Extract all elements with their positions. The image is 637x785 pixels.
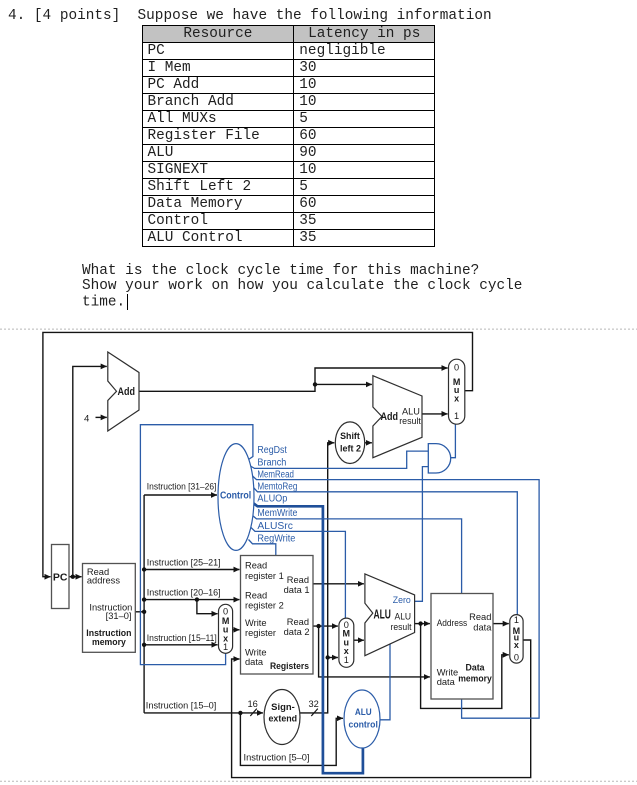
svg-text:16: 16: [248, 699, 258, 709]
sign extend ellipse: [264, 690, 300, 745]
labels RegDst mux: [222, 607, 230, 653]
junction Instr[20-16] branch: [195, 597, 199, 601]
svg-text:0: 0: [454, 363, 459, 373]
latency table: [142, 25, 436, 247]
svg-text:MemRead: MemRead: [257, 469, 294, 480]
wire Instruction[15-11] to RegDst mux input 1: [144, 644, 218, 646]
mux ALUSrc: [339, 618, 354, 667]
adder Add (PC+4): [108, 352, 139, 431]
wire instruction memory output to bus: [135, 611, 144, 613]
wire branch Add output to branch-mux input 1: [422, 413, 448, 415]
mux RegDst: [219, 604, 233, 653]
svg-text:Registers: Registers: [270, 661, 309, 672]
svg-text:register 2: register 2: [245, 600, 284, 610]
svg-text:Read: Read: [245, 590, 267, 600]
wire branch-mux output to PC input (top loop): [43, 332, 473, 576]
wire Read data 1 to ALU: [313, 583, 364, 585]
wire PC+4 to branch Add top input: [315, 383, 372, 385]
svg-text:Instruction [20–16]: Instruction [20–16]: [147, 588, 221, 599]
wire sign extend output branch to ALUSrc mux input 1: [328, 657, 338, 659]
svg-text:address: address: [87, 576, 120, 586]
svg-text:Sign-: Sign-: [271, 702, 295, 712]
svg-text:RegWrite: RegWrite: [257, 533, 295, 544]
wire ALU control output to ALU: [380, 644, 390, 720]
wire ALUOp control to ALU control unit: [253, 503, 363, 773]
svg-text:[31–0]: [31–0]: [106, 611, 132, 621]
svg-text:4: 4: [84, 414, 90, 425]
junction ALU result branch: [418, 621, 422, 625]
svg-text:Instruction [15–11]: Instruction [15–11]: [147, 633, 217, 644]
svg-text:Add: Add: [118, 386, 136, 398]
svg-text:Instruction [5–0]: Instruction [5–0]: [244, 753, 310, 764]
svg-text:ALU: ALU: [374, 607, 391, 621]
junction bus Instr[15-11]: [142, 643, 146, 647]
svg-text:0: 0: [223, 607, 228, 617]
wire Instruction[20-16] branch to RegDst mux input 0: [197, 600, 218, 614]
AND gate: [428, 444, 450, 473]
svg-text:extend: extend: [269, 714, 298, 724]
svg-text:Instruction [25–21]: Instruction [25–21]: [147, 558, 221, 569]
adder Add (branch target): [373, 376, 422, 458]
wire Instruction[31-26] to Control: [144, 494, 217, 496]
wire MemWrite control to data memory top: [253, 516, 462, 594]
PC register: [52, 545, 70, 609]
wire MemRead control to data memory bottom: [252, 476, 539, 719]
junction Read data 2 branch: [316, 624, 320, 628]
svg-text:Control: Control: [220, 490, 251, 501]
junction sign extend branch: [326, 655, 330, 659]
svg-text:Write: Write: [245, 618, 267, 628]
svg-text:Shift: Shift: [340, 431, 360, 441]
svg-text:MemtoReg: MemtoReg: [257, 481, 297, 492]
wire data memory Read data to MemtoReg mux input 1: [493, 623, 509, 625]
bit width slash 16: [250, 709, 256, 716]
wire Instruction[5-0] to ALU control: [240, 713, 343, 766]
svg-text:Address: Address: [437, 618, 468, 628]
control unit ellipse: [218, 444, 254, 551]
svg-text:data 1: data 1: [284, 585, 310, 595]
question text: [82, 264, 522, 311]
heading line: [8, 9, 492, 24]
svg-text:Instruction [15–0]: Instruction [15–0]: [146, 701, 217, 712]
wire Read data 2 to ALUSrc mux input 0: [313, 625, 338, 627]
svg-text:Branch: Branch: [257, 458, 286, 469]
instruction memory: [83, 564, 136, 653]
junction Instr[15-0] / [5-0]: [238, 711, 242, 715]
svg-text:result: result: [399, 416, 421, 427]
svg-text:MemWrite: MemWrite: [257, 508, 297, 519]
wire Branch control to AND gate: [250, 451, 429, 468]
svg-text:Read: Read: [469, 612, 491, 622]
wire sign extend output to shift left 2: [300, 443, 334, 713]
svg-text:1: 1: [223, 642, 228, 652]
svg-text:ALU: ALU: [395, 611, 412, 622]
svg-text:32: 32: [309, 699, 319, 709]
svg-text:Write: Write: [245, 648, 267, 658]
wire ALU result branch to MemtoReg mux input 0: [421, 624, 509, 709]
wire ALU result to data memory Address: [415, 623, 430, 625]
junction bus Instr[20-16]: [142, 597, 146, 601]
junction PC+4 split: [313, 382, 317, 386]
svg-text:PC: PC: [53, 572, 68, 584]
svg-text:ALUSrc: ALUSrc: [257, 521, 293, 532]
labels branch mux: [453, 363, 461, 422]
junction bus Instr[25-21]: [142, 567, 146, 571]
svg-text:left 2: left 2: [340, 444, 361, 454]
svg-text:x: x: [454, 394, 459, 404]
svg-text:control: control: [349, 719, 378, 729]
mux branch (PCSrc): [449, 359, 465, 424]
figure bottom edge (dotted): [0, 780, 637, 782]
wire shift left 2 output to branch Add: [365, 442, 372, 444]
svg-text:1: 1: [454, 411, 459, 421]
wire RegDst mux output to Write register: [233, 629, 240, 631]
ALU: [365, 574, 415, 656]
svg-text:Read: Read: [287, 617, 309, 627]
svg-text:data: data: [245, 657, 264, 667]
svg-text:data: data: [437, 677, 456, 687]
wire ALUSrc mux output to ALU: [354, 639, 364, 641]
svg-text:ALU: ALU: [355, 707, 372, 717]
svg-text:Read: Read: [245, 561, 267, 571]
wire RegWrite control to registers top: [249, 540, 276, 556]
svg-text:x: x: [514, 640, 519, 650]
svg-text:Add: Add: [381, 411, 399, 423]
ALU control ellipse: [344, 690, 380, 748]
wire constant 4 into Add: [96, 416, 107, 418]
registers: [241, 556, 314, 675]
wire AND gate output to branch-mux select: [451, 424, 456, 458]
svg-text:data: data: [473, 623, 492, 633]
wire Instruction[20-16] to Read register 2: [144, 599, 239, 601]
labels ALUSrc mux: [343, 620, 351, 665]
wire RegDst control to RegDst mux select: [140, 425, 253, 665]
svg-text:RegDst: RegDst: [257, 445, 287, 456]
wire ALU Zero output to AND gate: [414, 467, 428, 602]
svg-text:result: result: [391, 622, 412, 633]
junction PC output: [71, 575, 75, 579]
svg-text:register: register: [245, 628, 276, 638]
shift left 2 ellipse: [335, 422, 364, 464]
junction bus instruction out: [142, 610, 146, 614]
wire Read data 2 branch to data memory Write data: [319, 626, 430, 677]
svg-text:data 2: data 2: [284, 627, 310, 637]
wire PC output up to Add (PC+4) input: [73, 366, 107, 576]
svg-text:Read: Read: [287, 575, 309, 585]
wire PC to instruction memory read address: [69, 576, 82, 578]
svg-text:memory: memory: [92, 637, 126, 648]
svg-text:1: 1: [514, 615, 519, 625]
svg-text:Data: Data: [466, 663, 486, 674]
wire MemtoReg mux output back to registers Write data: [232, 640, 531, 778]
mux MemtoReg: [510, 615, 523, 664]
data memory: [431, 594, 493, 700]
wire instruction bus vertical: [143, 495, 145, 713]
svg-text:0: 0: [514, 653, 519, 663]
svg-text:Instruction [31–26]: Instruction [31–26]: [147, 482, 217, 493]
labels MemtoReg mux: [513, 615, 521, 663]
wire MemtoReg control to MemtoReg mux select: [253, 487, 517, 615]
figure top edge (dotted): [0, 328, 637, 330]
svg-text:Zero: Zero: [393, 595, 411, 606]
wire Add output to branch-mux input 0: [139, 368, 448, 391]
svg-text:register 1: register 1: [245, 571, 284, 581]
wire ALUSrc control to ALUSrc mux select: [251, 528, 345, 619]
wire Instruction[25-21] to Read register 1: [144, 569, 239, 571]
svg-text:Write: Write: [437, 667, 459, 677]
bit width slash 32: [311, 709, 318, 716]
svg-text:ALUOp: ALUOp: [257, 494, 287, 505]
svg-text:1: 1: [344, 655, 349, 665]
svg-text:memory: memory: [458, 674, 492, 685]
wire Instruction[15-0] to sign extend: [144, 712, 240, 714]
